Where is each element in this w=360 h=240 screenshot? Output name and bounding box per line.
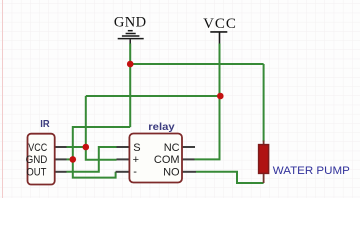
pin stubs bbox=[55, 147, 197, 172]
svg-text:WATER PUMP: WATER PUMP bbox=[273, 165, 350, 177]
svg-text:OUT: OUT bbox=[26, 167, 46, 179]
wire right vertical to pump bbox=[263, 64, 265, 142]
wire gnd jog to IR bbox=[73, 127, 130, 178]
svg-text:relay: relay bbox=[148, 121, 174, 133]
relay right pin labels bbox=[154, 142, 180, 179]
wire relay NO to pump bbox=[196, 172, 264, 183]
IR pin labels bbox=[26, 142, 48, 179]
svg-text:+: + bbox=[133, 154, 139, 166]
svg-text:COM: COM bbox=[154, 154, 180, 166]
wire IR OUT to relay S bbox=[67, 147, 117, 172]
wire vcc branch to IR VCC and relay + bbox=[86, 96, 117, 160]
pin stub IR VCC bbox=[55, 146, 67, 148]
pin stub relay - bbox=[116, 171, 130, 173]
wire vcc vertical bbox=[219, 44, 221, 97]
wire gnd rail bbox=[130, 63, 263, 65]
vcc symbol bbox=[210, 32, 227, 44]
svg-text:NO: NO bbox=[163, 167, 180, 179]
IR sensor box U1 bbox=[28, 134, 55, 185]
pin stub relay NO bbox=[182, 171, 197, 173]
pin stub pump bottom bbox=[263, 173, 265, 183]
svg-text:GND: GND bbox=[26, 154, 48, 166]
pin stub relay NC bbox=[182, 146, 196, 148]
junction node dots bbox=[127, 61, 134, 68]
svg-text:IR: IR bbox=[40, 119, 49, 130]
pin stub relay S bbox=[117, 146, 130, 148]
wire IR VCC pin bbox=[67, 146, 86, 148]
svg-text:NC: NC bbox=[164, 142, 180, 154]
svg-text:-: - bbox=[133, 166, 137, 178]
svg-text:VCC: VCC bbox=[203, 16, 237, 32]
pin stub relay COM bbox=[182, 158, 195, 160]
relay left pin labels bbox=[133, 142, 141, 178]
pin stub IR OUT bbox=[55, 171, 67, 173]
wire vcc to COM bbox=[195, 96, 220, 159]
page border line left bbox=[2, 0, 4, 198]
svg-text:S: S bbox=[133, 142, 140, 154]
ground symbol bbox=[118, 31, 144, 44]
wire IR GND pin bbox=[67, 158, 73, 160]
pin stub pump top bbox=[263, 141, 265, 146]
water pump body bbox=[259, 145, 269, 174]
wire vcc rail bbox=[86, 95, 220, 97]
pin stub relay + bbox=[117, 158, 130, 160]
pin stub IR GND bbox=[55, 158, 67, 160]
relay box bbox=[129, 134, 182, 183]
svg-text:VCC: VCC bbox=[28, 142, 47, 154]
svg-text:GND: GND bbox=[114, 14, 147, 30]
wire gnd vertical bbox=[129, 44, 131, 128]
